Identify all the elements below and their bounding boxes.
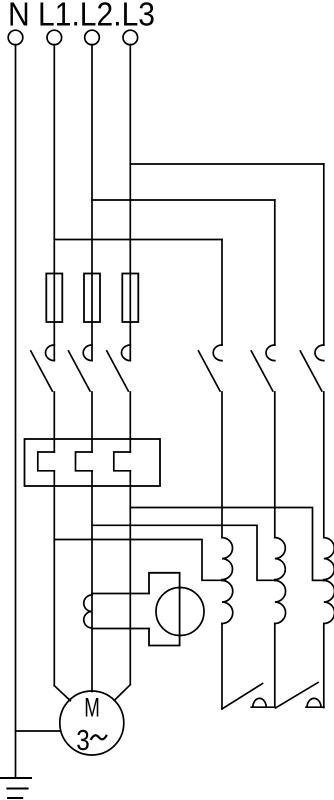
svg-text:3: 3	[76, 725, 90, 757]
winding 2 lower coil	[275, 581, 286, 624]
wire L1 below overload	[53, 471, 55, 686]
contactor contact K2.2 arc	[266, 345, 275, 361]
ground bar 3	[8, 797, 22, 799]
svg-text:M: M	[84, 693, 100, 723]
brake coil Y1 humps	[84, 595, 92, 628]
wire right column 1 upper	[221, 240, 223, 346]
contactor contact K1.1 blade	[31, 351, 53, 391]
star contact K3.1 arc	[253, 698, 266, 707]
star contact K3.1 blade	[222, 684, 263, 710]
contactor contact K2.1 blade	[199, 351, 221, 391]
winding 3 upper coil	[324, 538, 334, 580]
wire L3 diagonal to motor	[114, 685, 130, 701]
wire L1 upper	[53, 45, 55, 361]
wire right column 3 middle	[323, 392, 325, 538]
terminal L2	[85, 30, 100, 45]
brake B1 disc	[156, 588, 204, 636]
wire L3 below contact	[129, 392, 131, 452]
wire branch L2 to right column 2	[92, 199, 275, 201]
terminal N	[8, 30, 23, 45]
svg-text:N L1.L2.L3: N L1.L2.L3	[8, 0, 155, 32]
contactor contact K2.3 blade	[300, 351, 322, 391]
wire tap L1 to winding 1	[54, 540, 225, 581]
terminal L1	[47, 30, 62, 45]
star contact K3.2 arc	[307, 698, 321, 707]
ground bar 2	[7, 788, 27, 790]
fuse F2	[84, 274, 100, 323]
star contact K3.2 wire	[306, 706, 324, 708]
contactor contact K1.3 blade	[107, 351, 129, 391]
wire right column 2 middle	[274, 392, 276, 538]
wire winding 3 lower	[323, 624, 325, 708]
overload relay F4 box	[25, 439, 161, 486]
wire N to motor	[16, 730, 61, 732]
wire right column 2 upper	[274, 200, 276, 345]
overload heater L2 meander	[76, 452, 93, 471]
wire L3 below overload	[129, 471, 131, 685]
wire L1 below contact	[53, 392, 55, 452]
contactor contact K1.2 blade	[69, 351, 91, 391]
wire brake top connector	[92, 593, 149, 595]
winding 3 lower coil	[324, 581, 334, 624]
contactor contact K1.1 arc	[45, 345, 54, 361]
wire winding 1 lower	[221, 624, 223, 710]
star contact K3.2 blade	[276, 683, 319, 709]
wire N vertical	[15, 45, 17, 779]
wire winding 2 lower	[274, 624, 276, 707]
wire brake bottom connector	[92, 628, 149, 630]
wire L2 below overload	[91, 471, 93, 692]
contactor contact K2.1 arc	[213, 345, 222, 361]
ground bar 1	[0, 777, 31, 779]
wire branch L1 to right column 1	[54, 239, 222, 241]
fuse F3	[122, 274, 138, 323]
wire tap L2 to winding 2	[92, 525, 278, 580]
wire L2 below contact	[91, 392, 93, 452]
wire L1 diagonal to motor	[54, 686, 70, 701]
winding 2 upper coil	[275, 538, 286, 580]
star contact K3.1 wire	[251, 706, 275, 708]
overload heater L3 meander	[114, 452, 131, 471]
wire branch L3 to right column 3	[130, 163, 323, 165]
contactor contact K1.3 arc	[122, 345, 131, 361]
winding 1 upper coil	[222, 538, 233, 580]
contactor contact K2.3 arc	[315, 345, 324, 361]
motor M1 circle	[60, 691, 124, 755]
wire right column 3 upper	[323, 164, 325, 345]
fuse F1	[46, 274, 62, 323]
wire L2 upper	[91, 45, 93, 361]
overload heater L1 meander	[38, 452, 55, 471]
contactor contact K1.2 arc	[83, 345, 92, 361]
wire tap L3 to winding 3	[130, 508, 326, 581]
winding 1 lower coil	[222, 581, 233, 624]
contactor contact K2.2 blade	[251, 351, 272, 391]
brake B1 box	[149, 573, 180, 646]
wire L3 upper	[129, 45, 131, 361]
wire right column 1 middle	[221, 392, 223, 538]
terminal L3	[123, 30, 138, 45]
